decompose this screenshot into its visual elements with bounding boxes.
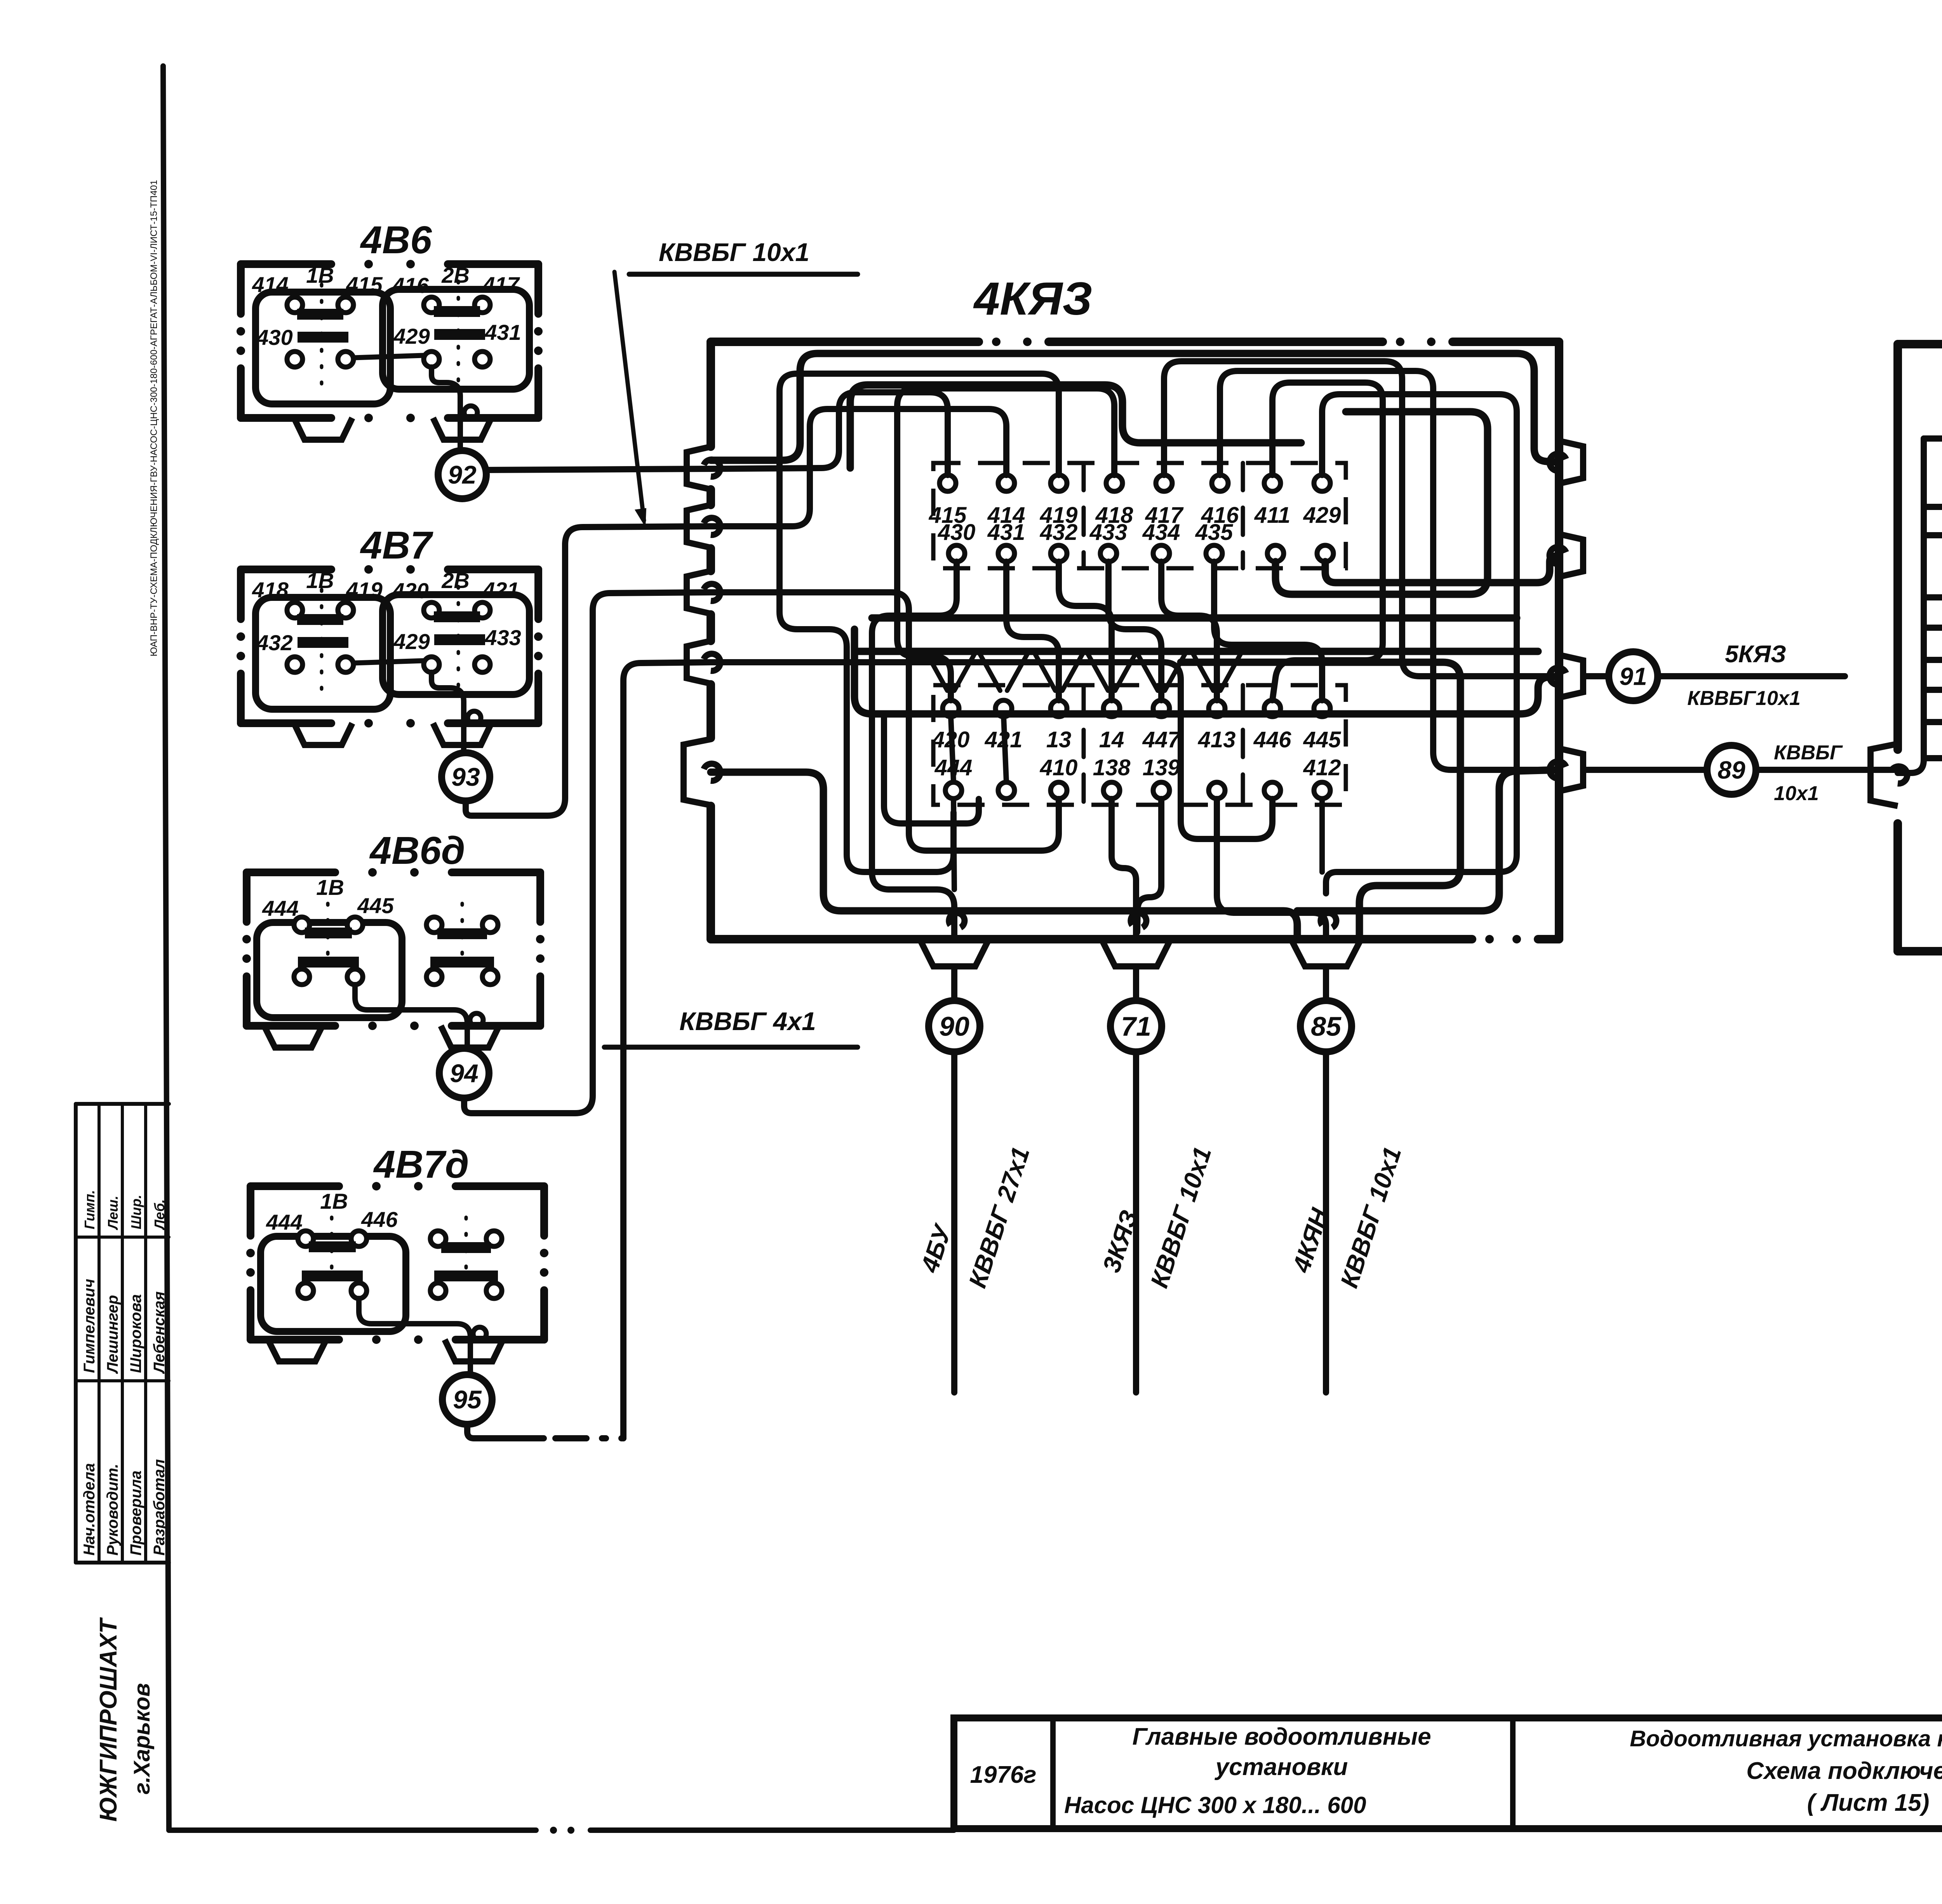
svg-text:1В: 1В: [320, 1189, 348, 1213]
svg-text:417: 417: [482, 272, 520, 297]
svg-text:Руководит.: Руководит.: [104, 1464, 121, 1556]
bus to exit 89: [1297, 770, 1559, 911]
wire 433 to 447: [1108, 562, 1161, 700]
svg-text:14: 14: [1099, 727, 1124, 752]
cable 89: [1583, 767, 1707, 773]
svg-text:Проверила: Проверила: [127, 1471, 144, 1556]
wire 420 line: [1924, 426, 1942, 439]
left contact block: [257, 922, 402, 1018]
svg-text:92: 92: [448, 460, 477, 489]
svg-text:Разработал: Разработал: [151, 1459, 168, 1556]
relay box 4В7: [241, 566, 331, 573]
stub 444: [954, 799, 954, 889]
svg-text:4В7д: 4В7д: [373, 1143, 469, 1186]
signature table: [76, 1102, 169, 1106]
lower bus from gland 5: [711, 772, 1297, 939]
svg-text:4В7: 4В7: [360, 524, 433, 567]
svg-text:138: 138: [1093, 755, 1131, 780]
left page border line: [163, 66, 169, 1830]
title block: [954, 1718, 1942, 1829]
svg-text:Схема подключения: Схема подключения: [1746, 1758, 1942, 1784]
wire to cable circle: [359, 1298, 470, 1374]
svg-text:4КЯЗ: 4КЯЗ: [973, 273, 1092, 325]
wire 413 line: [1924, 533, 1942, 535]
wire 417 to exit 91: [1164, 361, 1559, 676]
wire 434 to 413: [1161, 562, 1217, 700]
wire 92 to terminal 415: [711, 392, 948, 475]
svg-text:419: 419: [346, 578, 382, 602]
svg-text:1В: 1В: [316, 875, 344, 900]
svg-text:4В6д: 4В6д: [369, 829, 465, 872]
wire 411 to 446: [1272, 383, 1383, 700]
svg-text:432: 432: [256, 630, 292, 655]
svg-text:429: 429: [1303, 503, 1341, 528]
stub 421: [1004, 717, 1006, 782]
junction box 4КЯЗ outline: [711, 338, 979, 346]
wire 92 to 4КЯЗ: [486, 469, 711, 470]
left contact block: [256, 292, 390, 404]
wire 419 to 444: [780, 374, 1059, 872]
wire 416 line: [1924, 687, 1942, 693]
svg-text:1976г: 1976г: [970, 1761, 1036, 1788]
svg-text:410: 410: [1040, 755, 1078, 780]
wire 432 to 14: [1059, 562, 1112, 700]
svg-text:Нач.отдела: Нач.отдела: [81, 1463, 98, 1556]
wire to cable circle: [432, 672, 464, 753]
svg-text:445: 445: [357, 893, 394, 918]
relay box 4В7д: [251, 1182, 339, 1190]
svg-text:Главные водоотливные: Главные водоотливные: [1132, 1723, 1431, 1750]
right contact group: [430, 1231, 446, 1246]
svg-text:420: 420: [392, 578, 428, 603]
svg-text:85: 85: [1311, 1011, 1342, 1042]
svg-text:91: 91: [1619, 662, 1647, 690]
svg-text:444: 444: [266, 1210, 302, 1234]
wire 435 to 445: [1214, 562, 1322, 700]
svg-text:413: 413: [1198, 727, 1236, 752]
cable 71: [1133, 967, 1139, 1000]
svg-text:Лешингер: Лешингер: [104, 1295, 121, 1374]
svg-text:429: 429: [393, 629, 430, 654]
svg-text:418: 418: [252, 578, 289, 602]
svg-text:444: 444: [262, 896, 298, 921]
svg-text:( Лист 15): ( Лист 15): [1807, 1789, 1930, 1816]
svg-text:94: 94: [450, 1059, 478, 1088]
svg-text:433: 433: [1089, 520, 1128, 545]
wire to cable circle: [432, 367, 460, 451]
svg-text:КВВБГ 4х1: КВВБГ 4х1: [679, 1007, 816, 1036]
svg-text:г.Харьков: г.Харьков: [129, 1683, 155, 1794]
svg-text:430: 430: [256, 325, 292, 350]
riser: [1898, 439, 1924, 773]
wire 93 to terminal 414: [711, 409, 1006, 526]
svg-text:5КЯЗ: 5КЯЗ: [1725, 641, 1786, 668]
wire 447 line: [1924, 364, 1942, 507]
svg-text:71: 71: [1121, 1011, 1151, 1042]
wire 95 trunk: [623, 662, 711, 1438]
left contact block: [261, 1236, 406, 1331]
wire 138 to cable 71: [1112, 799, 1136, 939]
svg-text:Гимп.: Гимп.: [82, 1190, 97, 1229]
svg-text:Гимпелевич: Гимпелевич: [81, 1279, 98, 1373]
svg-text:415: 415: [346, 272, 383, 297]
right contact block: [383, 595, 529, 694]
svg-text:435: 435: [1195, 520, 1234, 545]
svg-text:429: 429: [393, 324, 430, 348]
svg-text:430: 430: [938, 520, 976, 545]
wire 430 to cable 90: [872, 562, 957, 939]
cable 85: [1323, 967, 1329, 1000]
svg-text:446: 446: [1253, 727, 1292, 752]
upper terminal strip dashed box: [933, 463, 1346, 568]
wire 429 down right side: [1322, 394, 1517, 893]
svg-text:КВВБГ10х1: КВВБГ10х1: [1687, 687, 1800, 710]
upper loop bus: [850, 385, 1301, 468]
svg-text:411: 411: [1254, 503, 1290, 528]
bottom border line: [169, 1827, 536, 1833]
terminal row 2: [948, 545, 965, 562]
terminal row 3: [943, 700, 959, 717]
svg-text:90: 90: [939, 1011, 969, 1042]
svg-text:447: 447: [1142, 727, 1182, 752]
wire 416 to exit 89: [1220, 371, 1559, 770]
svg-text:139: 139: [1143, 755, 1180, 780]
svg-text:КВВБГ 10х1: КВВБГ 10х1: [659, 238, 809, 266]
relay box 4В6д: [247, 868, 335, 876]
svg-text:ЮАП-ВНР-ТУ-СХЕМА-ПОДКЛЮЧЕНИЯ-Г: ЮАП-ВНР-ТУ-СХЕМА-ПОДКЛЮЧЕНИЯ-ГВУ-НАСОС-Ц…: [149, 180, 159, 656]
svg-text:95: 95: [453, 1385, 482, 1414]
cable circle 95: [442, 1375, 492, 1424]
wire 420 branch: [884, 717, 979, 823]
cable circle 92: [438, 451, 486, 499]
svg-text:431: 431: [987, 520, 1025, 545]
wire 94 to 410: [711, 592, 1059, 851]
cable 90: [951, 967, 957, 1000]
svg-text:Шир.: Шир.: [128, 1195, 144, 1229]
svg-text:КВВБГ: КВВБГ: [1774, 741, 1843, 764]
right contact block: [383, 289, 529, 389]
svg-text:Леб.: Леб.: [151, 1199, 167, 1230]
cable circle 94: [439, 1048, 489, 1098]
svg-text:89: 89: [1718, 756, 1745, 784]
svg-text:416: 416: [392, 273, 429, 298]
cross bus 2: [854, 648, 1538, 655]
wire 139 to cable 71: [1137, 799, 1161, 932]
svg-text:431: 431: [484, 320, 521, 345]
wire to cable circle: [355, 985, 467, 1048]
svg-text:2В: 2В: [441, 263, 470, 287]
left edge cable glands: [687, 447, 711, 489]
svg-text:установки: установки: [1215, 1754, 1348, 1780]
top bus to right gland 1: [711, 353, 1559, 462]
wire 418 line to pin 6: [1924, 611, 1942, 628]
svg-text:Лебенская: Лебенская: [151, 1291, 168, 1374]
lower terminal strip dashed box: [933, 685, 1346, 805]
bottom cable glands: [921, 941, 988, 966]
leader line: [614, 272, 644, 520]
cable 91: [1583, 673, 1609, 679]
stub 412: [1319, 799, 1325, 872]
wire 93 trunk: [466, 526, 711, 816]
wire 94 trunk: [464, 592, 711, 1113]
panel 4ПЦУ: [1898, 340, 1942, 348]
svg-text:Леш.: Леш.: [105, 1196, 121, 1230]
wire 95 bus: [711, 662, 1272, 839]
wire 414 line to pin 2: [1924, 414, 1942, 660]
terminal row 4: [945, 782, 962, 799]
svg-text:433: 433: [484, 625, 521, 650]
right edge cable glands: [1559, 441, 1583, 484]
svg-text:421: 421: [482, 578, 519, 602]
funnel pairs above lower strip: [927, 653, 947, 691]
svg-text:4В6: 4В6: [360, 218, 432, 262]
wire to right gland 2: [1325, 555, 1559, 583]
svg-text:434: 434: [1142, 520, 1180, 545]
wire 412 line: [1924, 517, 1942, 758]
stub 420-444: [951, 717, 954, 782]
left contact block: [256, 597, 390, 709]
svg-text:Широкова: Широкова: [127, 1294, 144, 1373]
terminal row 1: [940, 475, 956, 491]
bus to exit 91: [854, 629, 1559, 714]
cable circle 93: [442, 753, 490, 801]
svg-text:432: 432: [1040, 520, 1078, 545]
right contact group: [426, 917, 442, 933]
svg-text:445: 445: [1303, 727, 1342, 752]
wire to cable 85: [1217, 799, 1326, 939]
svg-text:13: 13: [1046, 727, 1072, 752]
spare terminal loop: [1276, 412, 1488, 594]
wire 418 to 420: [897, 388, 1114, 700]
svg-text:2В: 2В: [441, 568, 470, 593]
cross bus: [872, 614, 1517, 622]
svg-text:446: 446: [361, 1207, 398, 1232]
svg-text:93: 93: [451, 762, 480, 791]
wire 431 to 13: [1006, 562, 1059, 700]
wire 95 elbow: [467, 1425, 544, 1438]
svg-text:10х1: 10х1: [1774, 782, 1819, 805]
bus to cable 85: [1181, 662, 1460, 939]
wire 446 line: [1924, 378, 1942, 597]
relay box 4В6: [241, 260, 331, 268]
svg-text:Водоотливная установка на 5: Водоотливная установка на 5 агрегатов: [1630, 1726, 1942, 1751]
svg-text:ЮЖГИПРОШАХТ: ЮЖГИПРОШАХТ: [95, 1617, 122, 1822]
svg-text:Насос ЦНС 300 х 180... 600: Насос ЦНС 300 х 180... 600: [1064, 1792, 1366, 1818]
svg-text:412: 412: [1303, 755, 1341, 780]
svg-text:414: 414: [252, 272, 288, 297]
wire 445 line to pin 8: [1924, 686, 1942, 722]
